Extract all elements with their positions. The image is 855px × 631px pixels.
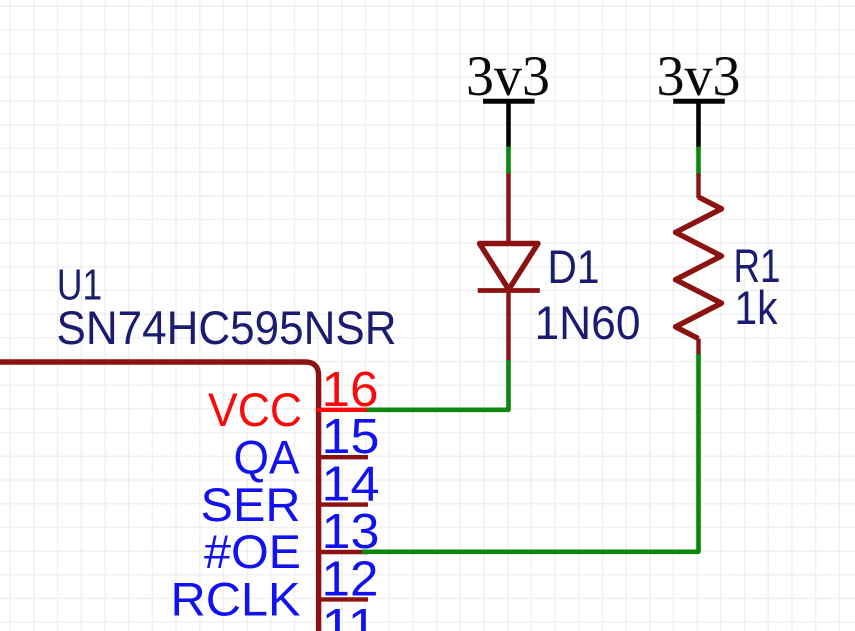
wire (net 3v3 to D1 anode, green) (506, 147, 511, 176)
resistor R1 bottom lead (696, 339, 700, 356)
svg-text:14: 14 (322, 458, 380, 512)
power flag 3v3 (right) stem (696, 101, 701, 147)
svg-text:RCLK: RCLK (171, 573, 301, 626)
svg-text:QA: QA (234, 430, 301, 483)
svg-text:D1: D1 (548, 240, 600, 293)
pin 13 stub (319, 550, 368, 554)
wire (R1 bottom to pin 13, green) (362, 354, 699, 552)
power flag 3v3 (left) bar symbol (483, 99, 535, 104)
svg-text:1N60: 1N60 (535, 296, 641, 349)
svg-text:3v3: 3v3 (657, 45, 741, 108)
pin 14 stub (319, 502, 368, 506)
power flag 3v3 (left) stem (506, 101, 511, 147)
svg-text:12: 12 (322, 552, 379, 606)
power flag 3v3 (right) bar symbol (673, 99, 725, 104)
svg-text:11: 11 (322, 600, 378, 631)
svg-text:1k: 1k (735, 281, 778, 334)
resistor R1 zigzag body (676, 197, 722, 339)
resistor R1 top lead (696, 174, 700, 199)
svg-text:#OE: #OE (204, 525, 301, 578)
wire (D1 cathode to pin 16, green) (365, 360, 509, 410)
diode D1 triangle (480, 244, 539, 290)
wire (net 3v3 to R1 top, green) (696, 147, 701, 176)
svg-text:16: 16 (322, 363, 379, 417)
pin 12 stub (319, 597, 368, 601)
diode D1 cathode bar (478, 288, 540, 293)
IC U1 body outline (0, 362, 319, 631)
svg-text:3v3: 3v3 (466, 45, 550, 108)
diode D1 anode lead (506, 174, 510, 243)
pin 16 stub (highlighted red) (318, 408, 365, 412)
svg-text:15: 15 (322, 410, 380, 464)
pin 15 stub (319, 455, 368, 459)
svg-text:VCC: VCC (208, 383, 302, 436)
svg-text:SER: SER (201, 478, 301, 531)
svg-text:SN74HC595NSR: SN74HC595NSR (57, 301, 397, 354)
diode D1 cathode lead (506, 291, 510, 363)
